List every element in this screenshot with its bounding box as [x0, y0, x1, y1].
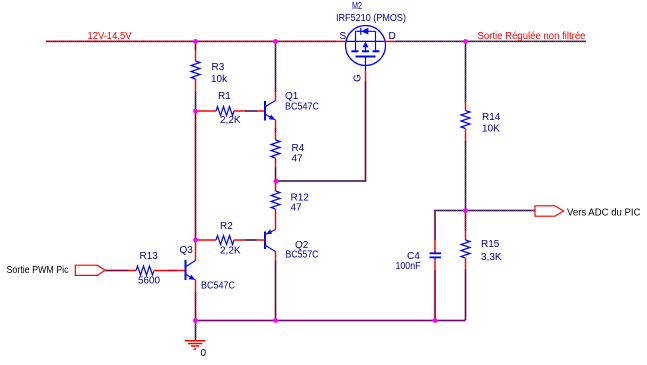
- resistor R3: [191, 42, 200, 91]
- wire R2 to Q2 base: [245, 239, 257, 241]
- resistor R12: [271, 183, 280, 230]
- svg-text:3,3K: 3,3K: [481, 252, 502, 263]
- junction ground rail left: [193, 318, 198, 323]
- transistor Q2: [257, 229, 276, 260]
- junction rail at R14: [463, 39, 468, 44]
- junction R3 R1: [193, 109, 198, 114]
- wire R4 to gate node: [275, 168, 277, 181]
- mosfet M2: [336, 26, 395, 82]
- svg-text:100nF: 100nF: [396, 261, 421, 272]
- wire 12V rail left: [46, 40, 336, 42]
- svg-text:M2: M2: [352, 1, 362, 12]
- wire ADC node to C4: [435, 211, 464, 241]
- ground symbol: [185, 321, 206, 349]
- ground rail: [196, 320, 466, 322]
- svg-text:10k: 10k: [211, 74, 228, 85]
- wire rail to R14: [465, 43, 467, 102]
- svg-text:R14: R14: [482, 112, 501, 123]
- svg-text:BC547C: BC547C: [201, 281, 235, 292]
- svg-text:S: S: [340, 31, 347, 42]
- resistor R15: [461, 231, 470, 270]
- wire R14 to ADC node: [465, 141, 467, 209]
- capacitor C4: [430, 240, 442, 270]
- svg-text:Q3: Q3: [180, 245, 194, 256]
- resistor R13: [128, 266, 168, 275]
- svg-text:2,2K: 2,2K: [220, 246, 241, 257]
- wire ADC node to R15: [465, 212, 467, 231]
- svg-text:BC557C: BC557C: [286, 250, 319, 261]
- junction R2 Q3 collector: [193, 238, 198, 243]
- svg-text:47: 47: [292, 154, 304, 165]
- wire Q1 emitter to R4: [275, 128, 277, 133]
- junction ground rail C4: [433, 318, 438, 323]
- svg-text:D: D: [389, 31, 396, 42]
- wire left column R1 to R2 junction: [195, 112, 197, 239]
- junction ADC node: [463, 208, 468, 213]
- svg-text:R4: R4: [292, 143, 305, 154]
- resistor R4: [271, 133, 280, 168]
- svg-text:0: 0: [201, 348, 207, 359]
- wire R13 to Q3 base: [168, 270, 177, 272]
- junction gate node: [274, 179, 279, 184]
- svg-text:5600: 5600: [138, 276, 160, 287]
- junction rail at R3: [193, 39, 198, 44]
- wire R3 to R1 junction: [195, 91, 197, 110]
- svg-text:10K: 10K: [482, 124, 500, 135]
- wire terminal to R13: [106, 270, 129, 272]
- svg-text:BC547C: BC547C: [285, 102, 319, 113]
- svg-text:Vers ADC du PIC: Vers ADC du PIC: [567, 208, 641, 219]
- svg-text:2,2K: 2,2K: [220, 115, 241, 126]
- svg-text:Q1: Q1: [285, 91, 299, 102]
- transistor Q3: [177, 242, 196, 292]
- wire gate node to M2 gate: [277, 81, 366, 181]
- svg-text:Sortie Régulée non filtrée: Sortie Régulée non filtrée: [478, 31, 586, 42]
- resistor R14: [461, 102, 470, 141]
- svg-text:IRF5210 (PMOS): IRF5210 (PMOS): [336, 13, 406, 24]
- svg-text:47: 47: [291, 203, 303, 214]
- junction ground rail Q2: [273, 318, 278, 323]
- svg-text:G: G: [353, 74, 364, 82]
- wire Q2 collector to ground rail: [275, 261, 277, 320]
- terminal Sortie PWM Pic: [75, 265, 105, 275]
- svg-text:R15: R15: [481, 239, 500, 250]
- wire ADC node to terminal: [467, 210, 535, 212]
- svg-text:12V-14,5V: 12V-14,5V: [88, 31, 132, 42]
- wire C4 to ground rail: [434, 270, 436, 319]
- svg-text:R1: R1: [218, 91, 231, 102]
- wire R1 to Q1 base: [245, 110, 257, 112]
- svg-text:R2: R2: [220, 221, 233, 232]
- wire Q3 emitter to ground rail: [195, 292, 197, 319]
- svg-text:Sortie PWM Pic: Sortie PWM Pic: [7, 265, 69, 276]
- svg-text:R3: R3: [212, 62, 225, 73]
- transistor Q1: [257, 92, 276, 128]
- svg-text:R13: R13: [140, 251, 159, 262]
- junction rail at Q1 collector: [273, 39, 278, 44]
- wire rail right of M2: [395, 40, 586, 42]
- wire R15 to ground rail: [465, 270, 467, 321]
- resistor R2: [197, 236, 245, 245]
- terminal Vers ADC du PIC: [535, 206, 564, 216]
- wire Q1 collector to rail: [275, 43, 277, 92]
- resistor R1: [197, 107, 245, 116]
